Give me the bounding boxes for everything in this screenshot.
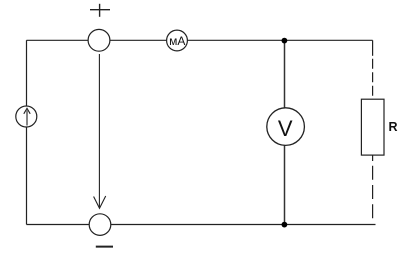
wire: top horizontal (from left corner to right corner)	[27, 39, 373, 41]
current source I1 circle	[16, 106, 37, 127]
current source I1 arrowhead	[24, 108, 30, 114]
wire: right branch dashed segment above resistor	[372, 59, 374, 99]
wire: bottom horizontal	[27, 224, 376, 226]
terminal node - (bottom binding post circle)	[89, 214, 111, 236]
plus sign label	[90, 4, 110, 17]
minus sign label	[96, 246, 113, 248]
terminal node + (top binding post circle)	[88, 29, 110, 51]
wire: right branch solid stub below resistor	[372, 155, 374, 161]
current direction arrowhead	[94, 196, 106, 208]
junction node dot top	[282, 38, 288, 44]
svg-text:V: V	[278, 116, 293, 141]
wire: left vertical	[26, 40, 28, 224]
ammeter mA circle	[167, 30, 188, 51]
svg-text:R: R	[389, 120, 398, 134]
current source I1 arrow shaft	[26, 111, 28, 126]
svg-text:мА: мА	[169, 34, 185, 48]
wire: right branch solid segment below top corner	[372, 40, 374, 56]
resistor R body	[361, 99, 384, 155]
wire: right branch dashed segment below resistor	[372, 166, 374, 221]
junction node dot bottom	[282, 222, 288, 228]
current direction arrow shaft (between terminals)	[98, 54, 100, 208]
wire: voltmeter branch vertical	[284, 41, 286, 225]
voltmeter V circle	[267, 108, 305, 146]
